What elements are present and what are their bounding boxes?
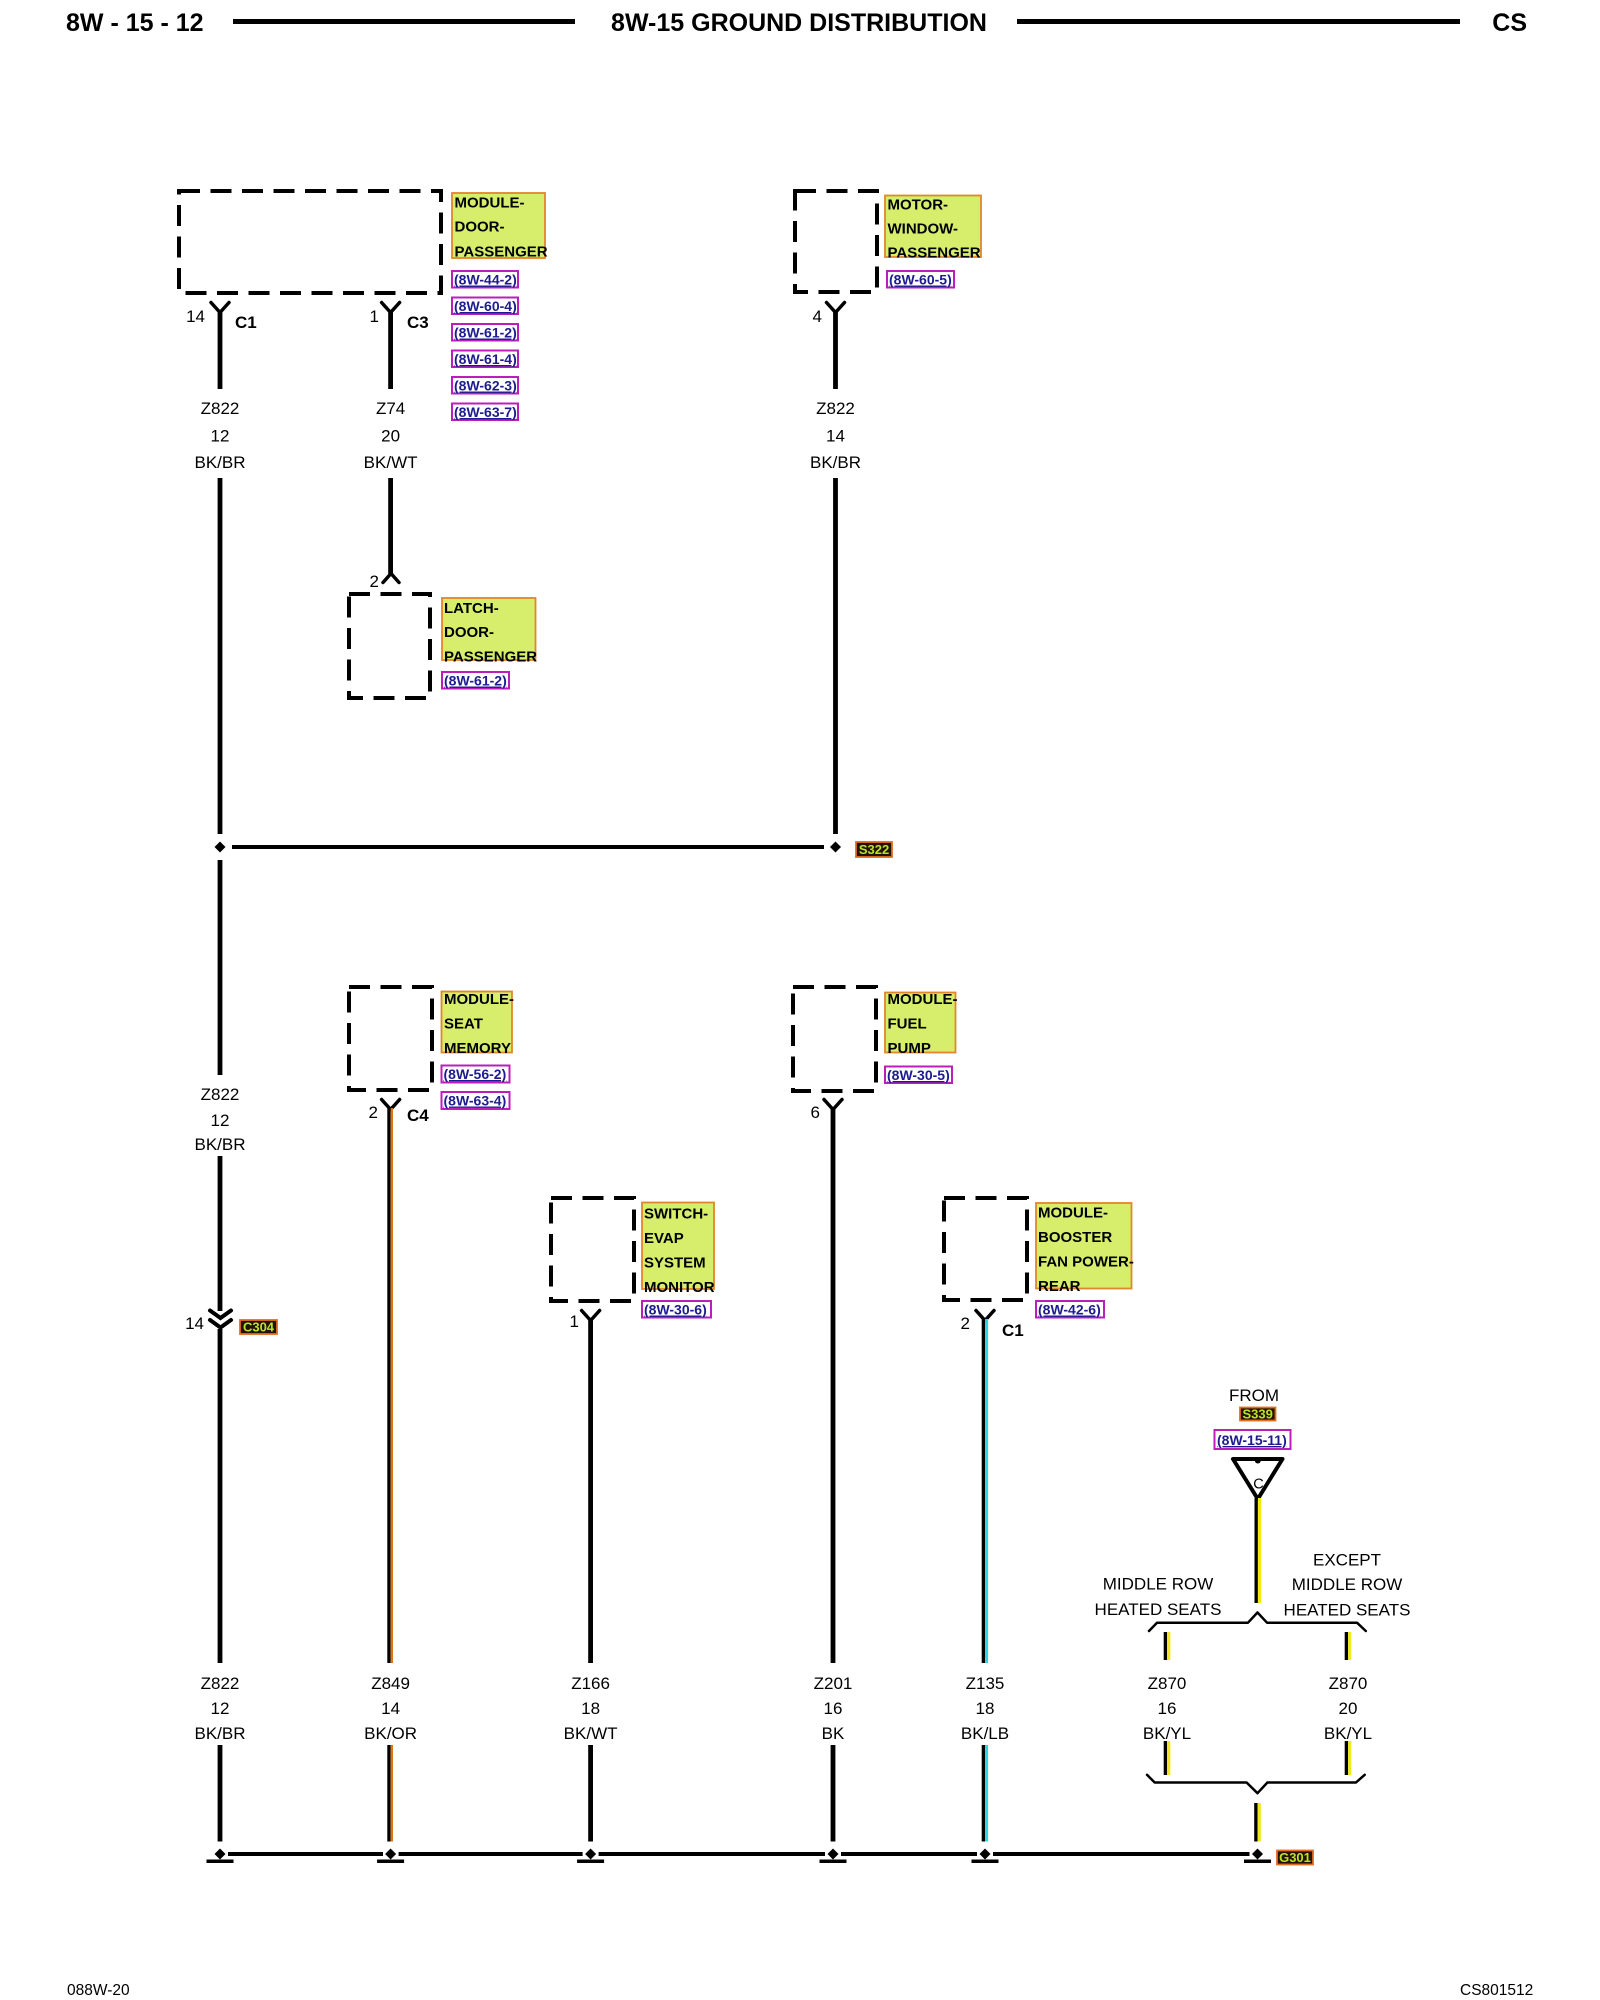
svg-text:(8W-42-6): (8W-42-6) (1038, 1302, 1101, 1318)
svg-text:PASSENGER: PASSENGER (444, 649, 537, 666)
svg-text:1: 1 (570, 1312, 579, 1331)
wire label Z135 18 BK/LB (961, 1674, 1009, 1743)
svg-text:C1: C1 (235, 313, 257, 332)
svg-text:PASSENGER: PASSENGER (888, 245, 981, 262)
svg-text:18: 18 (976, 1699, 995, 1718)
svg-text:Z201: Z201 (814, 1674, 853, 1693)
svg-text:MODULE-: MODULE- (455, 195, 525, 212)
link 8W-56-2 (442, 1066, 510, 1083)
svg-text:FAN POWER-: FAN POWER- (1038, 1254, 1134, 1271)
wire Z870 20 BK/YL right branch lower (1345, 1741, 1352, 1775)
svg-text:20: 20 (381, 427, 400, 446)
svg-text:(8W-15-11): (8W-15-11) (1217, 1432, 1287, 1448)
module SWITCH-EVAP SYSTEM MONITOR (dashed box) (551, 1198, 634, 1301)
wire label Z822 14 BK/BR (top right) (810, 399, 861, 472)
wire Z822 to connector C304 (218, 1156, 223, 1311)
svg-text:S339: S339 (1243, 1407, 1273, 1422)
svg-text:8W - 15 - 12: 8W - 15 - 12 (66, 9, 204, 37)
svg-text:MIDDLE ROW: MIDDLE ROW (1292, 1575, 1403, 1594)
svg-text:MODULE-: MODULE- (1038, 1205, 1108, 1222)
splice bus S322 (232, 845, 824, 849)
wire label Z822 12 BK/BR (bottom) (194, 1674, 245, 1743)
wire Z849 BK/OR from C4 down (387, 1108, 393, 1663)
svg-text:EVAP: EVAP (644, 1230, 684, 1247)
svg-text:14: 14 (186, 307, 205, 326)
splice label S339 (1240, 1407, 1276, 1422)
svg-text:(8W-63-7): (8W-63-7) (454, 404, 517, 420)
junction at S322 left (215, 842, 226, 853)
wire Z166 bottom segment to ground (588, 1745, 593, 1842)
wire label Z870 16 BK/YL (1143, 1674, 1191, 1743)
svg-text:2: 2 (369, 1103, 378, 1122)
svg-text:PUMP: PUMP (888, 1040, 931, 1057)
pin 14 connector C1 (186, 303, 257, 333)
wire Z201 16 BK from pin 6 down (831, 1108, 836, 1663)
module MODULE-FUEL PUMP (dashed box) (793, 987, 876, 1091)
svg-text:C304: C304 (243, 1320, 275, 1335)
link 8W-60-4 (452, 298, 518, 315)
svg-text:1: 1 (370, 307, 379, 326)
ground junction Z870 (1244, 1849, 1271, 1864)
svg-text:(8W-60-5): (8W-60-5) (889, 272, 952, 288)
svg-text:2: 2 (961, 1314, 970, 1333)
wire Z822 14 BK/BR from window motor pin 4, upper segment (833, 311, 838, 389)
svg-text:Z166: Z166 (571, 1674, 610, 1693)
label MODULE-DOOR-PASSENGER (452, 193, 548, 261)
pin 2 connector C1 (booster fan) (961, 1311, 1024, 1341)
svg-text:DOOR-: DOOR- (444, 624, 494, 641)
link 8W-61-2 (452, 324, 518, 341)
link 8W-63-4 (442, 1092, 510, 1109)
svg-text:(8W-61-2): (8W-61-2) (444, 673, 507, 689)
ground junction Z201 (820, 1849, 847, 1864)
svg-text:BOOSTER: BOOSTER (1038, 1229, 1112, 1246)
svg-text:16: 16 (1158, 1699, 1177, 1718)
link 8W-30-5 (885, 1067, 952, 1084)
ground bus G301 segment 2 (399, 1852, 583, 1856)
svg-text:4: 4 (813, 307, 822, 326)
ground junction Z166 (577, 1849, 604, 1864)
label MOTOR-WINDOW-PASSENGER (885, 196, 981, 262)
ground bus G301 segment 4 (841, 1852, 977, 1856)
wire Z822 bottom segment to ground (218, 1745, 223, 1842)
label LATCH-DOOR-PASSENGER (442, 598, 537, 666)
wire Z870 20 BK/YL right branch upper (1345, 1632, 1352, 1660)
svg-text:(8W-30-6): (8W-30-6) (644, 1302, 707, 1318)
svg-text:BK/BR: BK/BR (194, 453, 245, 472)
wire Z166 18 BK/WT down (588, 1319, 593, 1663)
header code CS (1492, 9, 1527, 37)
pin 2 connector C4 (369, 1100, 430, 1126)
link 8W-15-11 (1215, 1430, 1291, 1449)
svg-text:MIDDLE ROW: MIDDLE ROW (1103, 1575, 1214, 1594)
text EXCEPT MIDDLE ROW HEATED SEATS (1284, 1551, 1411, 1620)
wire BK/YL from merge to ground bus (1254, 1803, 1261, 1842)
svg-text:BK/WT: BK/WT (564, 1724, 618, 1743)
header page number (66, 9, 204, 37)
svg-text:(8W-61-2): (8W-61-2) (454, 325, 517, 341)
pin 1 of evap switch (570, 1311, 600, 1332)
label MODULE-SEAT MEMORY (442, 991, 515, 1057)
ground junction Z135 (972, 1849, 999, 1864)
svg-text:(8W-60-4): (8W-60-4) (454, 298, 517, 314)
link 8W-63-7 (452, 404, 518, 421)
header rule left (233, 19, 575, 24)
svg-text:REAR: REAR (1038, 1278, 1081, 1295)
wire Z822 below C304 (218, 1329, 223, 1663)
svg-text:WINDOW-: WINDOW- (888, 221, 959, 238)
svg-text:(8W-63-4): (8W-63-4) (444, 1093, 507, 1109)
svg-text:Z870: Z870 (1148, 1674, 1187, 1693)
ground label G301 (1277, 1850, 1313, 1865)
wire label Z822 12 BK/BR (middle) (194, 1085, 245, 1154)
svg-text:LATCH-: LATCH- (444, 600, 499, 617)
svg-text:FUEL: FUEL (888, 1016, 927, 1033)
splice label S322 (856, 842, 892, 857)
wire Z74 to latch (388, 478, 393, 574)
svg-text:Z135: Z135 (966, 1674, 1005, 1693)
svg-text:BK/YL: BK/YL (1324, 1724, 1372, 1743)
wire label Z74 20 BK/WT (364, 399, 418, 472)
svg-text:MODULE-: MODULE- (888, 991, 958, 1008)
svg-text:16: 16 (824, 1699, 843, 1718)
footer right CS801512 (1460, 1982, 1533, 1999)
svg-text:14: 14 (381, 1699, 400, 1718)
wire Z849 bottom segment to ground (387, 1745, 393, 1842)
wire Z135 bottom segment to ground (982, 1745, 988, 1842)
svg-text:12: 12 (211, 1699, 230, 1718)
wire Z822 down to splice S322 (833, 478, 838, 834)
svg-text:BK/BR: BK/BR (810, 453, 861, 472)
svg-text:C1: C1 (1002, 1321, 1024, 1340)
link 8W-61-4 (452, 351, 518, 368)
svg-text:SEAT: SEAT (444, 1016, 483, 1033)
wire Z135 BK/LB (black with light blue stripe) down (982, 1319, 988, 1663)
svg-text:Z870: Z870 (1329, 1674, 1368, 1693)
svg-text:EXCEPT: EXCEPT (1313, 1551, 1381, 1570)
header rule right (1017, 19, 1460, 24)
svg-text:C: C (1253, 1477, 1263, 1493)
link 8W-30-6 (642, 1301, 711, 1318)
svg-text:MONITOR: MONITOR (644, 1279, 715, 1296)
svg-text:Z822: Z822 (201, 1085, 240, 1104)
wire label Z870 20 BK/YL (1324, 1674, 1372, 1743)
link 8W-60-5 (887, 271, 954, 288)
module MOTOR-WINDOW-PASSENGER (dashed box) (795, 191, 877, 292)
svg-text:6: 6 (811, 1103, 820, 1122)
pin 4 of window motor (813, 303, 845, 327)
footer left 088W-20 (67, 1982, 130, 1999)
ground bus G301 segment 1 (228, 1852, 383, 1856)
svg-text:14: 14 (826, 427, 845, 446)
wire label Z822 12 BK/BR (top left) (194, 399, 245, 472)
wire label Z166 18 BK/WT (564, 1674, 618, 1743)
svg-text:18: 18 (581, 1699, 600, 1718)
wire label Z849 14 BK/OR (364, 1674, 417, 1743)
svg-text:12: 12 (211, 1111, 230, 1130)
junction at S322 right (830, 842, 841, 853)
ground bus G301 segment 5 (993, 1852, 1250, 1856)
svg-text:14: 14 (185, 1314, 204, 1333)
svg-text:CS801512: CS801512 (1460, 1982, 1533, 1999)
svg-text:088W-20: 088W-20 (67, 1982, 130, 1999)
ground bus G301 segment 3 (599, 1852, 825, 1856)
svg-text:8W-15 GROUND DISTRIBUTION: 8W-15 GROUND DISTRIBUTION (611, 9, 987, 37)
wire Z870 16 BK/YL left branch lower (1164, 1741, 1171, 1775)
svg-text:BK/BR: BK/BR (194, 1724, 245, 1743)
svg-text:Z74: Z74 (376, 399, 405, 418)
connector label C304 (240, 1320, 277, 1335)
wire Z870 16 BK/YL left branch upper (1164, 1632, 1171, 1660)
svg-text:BK/YL: BK/YL (1143, 1724, 1191, 1743)
module MODULE-BOOSTER FAN POWER-REAR (dashed box) (944, 1198, 1027, 1300)
svg-text:FROM: FROM (1229, 1386, 1279, 1405)
svg-text:MEMORY: MEMORY (444, 1040, 511, 1057)
svg-text:Z822: Z822 (201, 399, 240, 418)
svg-text:20: 20 (1339, 1699, 1358, 1718)
svg-text:G301: G301 (1279, 1850, 1311, 1865)
svg-text:(8W-61-4): (8W-61-4) (454, 351, 517, 367)
link 8W-62-3 (452, 377, 518, 394)
svg-text:2: 2 (370, 572, 379, 591)
wire BK/YL from triangle C down to split (1255, 1498, 1262, 1603)
svg-text:Z849: Z849 (371, 1674, 410, 1693)
module LATCH-DOOR-PASSENGER (dashed box) (349, 594, 430, 698)
label MODULE-BOOSTER FAN POWER-REAR (1036, 1203, 1134, 1295)
in-line connector C304 (pin 14) (185, 1311, 231, 1334)
pin 2 of latch (inverted Y) (370, 572, 399, 591)
svg-text:CS: CS (1492, 9, 1527, 37)
wire Z74 20 BK/WT from C3, upper segment (388, 311, 393, 389)
module MODULE-DOOR-PASSENGER (dashed box) (179, 191, 441, 293)
brace split (top) (1149, 1613, 1366, 1632)
svg-text:BK/OR: BK/OR (364, 1724, 417, 1743)
header title (611, 9, 987, 37)
svg-text:HEATED SEATS: HEATED SEATS (1095, 1600, 1222, 1619)
label SWITCH-EVAP SYSTEM MONITOR (642, 1203, 715, 1297)
svg-text:(8W-44-2): (8W-44-2) (454, 272, 517, 288)
svg-text:BK/LB: BK/LB (961, 1724, 1009, 1743)
label MODULE-FUEL PUMP (885, 991, 958, 1057)
svg-text:(8W-30-5): (8W-30-5) (887, 1067, 950, 1083)
svg-text:SWITCH-: SWITCH- (644, 1206, 708, 1223)
wire Z201 bottom segment to ground (831, 1745, 836, 1842)
svg-text:PASSENGER: PASSENGER (455, 244, 548, 261)
wire Z822 below S322 (218, 860, 223, 1075)
link 8W-42-6 (1036, 1301, 1104, 1318)
svg-text:BK/WT: BK/WT (364, 453, 418, 472)
svg-text:SYSTEM: SYSTEM (644, 1255, 706, 1272)
text FROM (1229, 1386, 1279, 1405)
wire Z822 12 BK/BR from C1, upper segment (218, 311, 223, 389)
svg-text:HEATED SEATS: HEATED SEATS (1284, 1601, 1411, 1620)
link 8W-61-2 (latch) (442, 672, 509, 689)
svg-text:BK: BK (822, 1724, 845, 1743)
wire label Z201 16 BK (814, 1674, 853, 1743)
link 8W-44-2 (452, 271, 518, 288)
svg-text:S322: S322 (859, 842, 889, 857)
svg-text:C3: C3 (407, 313, 429, 332)
svg-text:(8W-56-2): (8W-56-2) (444, 1066, 507, 1082)
off-page connector triangle C (1233, 1458, 1283, 1500)
svg-text:MOTOR-: MOTOR- (888, 197, 949, 214)
svg-text:(8W-62-3): (8W-62-3) (454, 378, 517, 394)
module MODULE-SEAT MEMORY (dashed box) (349, 987, 432, 1090)
text MIDDLE ROW HEATED SEATS (1095, 1575, 1222, 1620)
svg-text:C4: C4 (407, 1106, 429, 1125)
svg-text:Z822: Z822 (201, 1674, 240, 1693)
svg-text:DOOR-: DOOR- (455, 219, 505, 236)
svg-text:12: 12 (211, 427, 230, 446)
wire Z822 to splice S322 (218, 478, 223, 834)
ground junction Z822 (207, 1849, 234, 1864)
ground junction Z849 (377, 1849, 404, 1864)
svg-text:BK/BR: BK/BR (194, 1135, 245, 1154)
pin 6 of fuel pump module (811, 1100, 842, 1123)
brace merge (bottom) (1147, 1775, 1365, 1793)
svg-text:MODULE-: MODULE- (444, 991, 514, 1008)
pin 1 connector C3 (370, 303, 429, 333)
svg-text:Z822: Z822 (816, 399, 855, 418)
